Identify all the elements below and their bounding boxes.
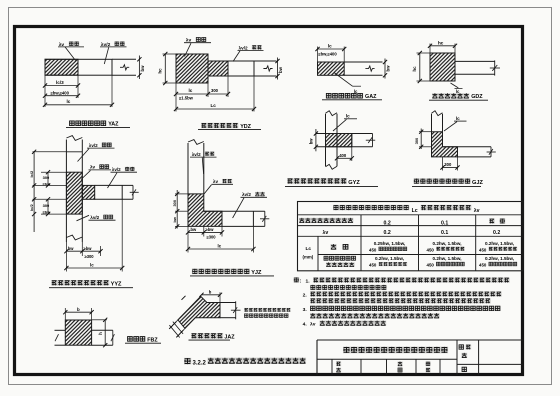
svg-text:h: h: [98, 332, 103, 335]
svg-text:λv: λv: [323, 230, 329, 236]
svg-text:0.2hw, 1.5bw,: 0.2hw, 1.5bw,: [432, 256, 461, 261]
svg-text:λv: λv: [90, 165, 96, 170]
svg-text:bw: bw: [191, 227, 198, 232]
svg-text:300: 300: [43, 175, 50, 180]
svg-text:λv: λv: [213, 179, 219, 184]
svg-text:GDZ: GDZ: [471, 94, 483, 100]
svg-text:≥bw,≥400: ≥bw,≥400: [318, 52, 337, 57]
svg-text:0.25hw, 1.5bw,: 0.25hw, 1.5bw,: [374, 241, 406, 246]
svg-text:lc: lc: [456, 116, 460, 121]
svg-text:Lc: Lc: [211, 103, 217, 108]
svg-text:JAZ: JAZ: [224, 335, 235, 341]
svg-text:≥bw: ≥bw: [43, 210, 52, 215]
svg-text:1.: 1.: [306, 279, 311, 285]
svg-text:bw: bw: [68, 246, 75, 251]
svg-text:lc: lc: [67, 99, 71, 104]
svg-text:450: 450: [479, 247, 487, 252]
svg-text:λv: λv: [310, 321, 316, 327]
svg-text:YDZ: YDZ: [240, 124, 251, 130]
svg-text:≥300: ≥300: [207, 235, 217, 240]
svg-text:450: 450: [369, 263, 377, 268]
svg-text:≥bw,≥400: ≥bw,≥400: [51, 90, 70, 95]
svg-text:0.1: 0.1: [441, 230, 448, 236]
svg-text:≥1.5bw: ≥1.5bw: [179, 96, 194, 101]
svg-text:GYZ: GYZ: [348, 180, 360, 186]
svg-text:0.2hw, 1.5bw,: 0.2hw, 1.5bw,: [485, 256, 514, 261]
svg-text:b: b: [77, 307, 80, 312]
svg-text:bw: bw: [140, 65, 145, 72]
svg-text:0.2hw, 1.5bw,: 0.2hw, 1.5bw,: [432, 241, 461, 246]
svg-text:3.2.2: 3.2.2: [193, 360, 207, 366]
svg-text:λv/2: λv/2: [242, 192, 251, 197]
svg-text:YAZ: YAZ: [108, 122, 119, 128]
svg-text:lc/2: lc/2: [29, 170, 34, 177]
svg-text:bw: bw: [385, 65, 390, 72]
svg-text:450: 450: [479, 263, 487, 268]
svg-text:hc: hc: [438, 40, 444, 45]
svg-text:0.2hw, 1.5bw,: 0.2hw, 1.5bw,: [485, 241, 514, 246]
svg-text:lc: lc: [346, 114, 350, 119]
svg-text:bw: bw: [309, 138, 314, 145]
svg-text:FBZ: FBZ: [147, 337, 158, 343]
svg-text:lc/3: lc/3: [56, 80, 64, 85]
svg-text:0.2hw, 1.5bw,: 0.2hw, 1.5bw,: [375, 256, 404, 261]
svg-text:(mm): (mm): [303, 255, 314, 260]
svg-text:450: 450: [427, 247, 435, 252]
svg-text:0.2: 0.2: [384, 220, 391, 226]
svg-text:hc: hc: [158, 68, 163, 74]
svg-text:λv: λv: [474, 208, 480, 214]
svg-text:300: 300: [414, 138, 419, 145]
svg-text:450: 450: [369, 247, 377, 252]
svg-text:hc: hc: [412, 66, 417, 72]
svg-text:300: 300: [444, 162, 452, 167]
svg-text:lc: lc: [328, 44, 332, 49]
svg-text:λv/2: λv/2: [90, 215, 99, 220]
svg-text:≥bw: ≥bw: [84, 246, 93, 251]
svg-text:lc: lc: [189, 88, 193, 93]
svg-text:YYZ: YYZ: [111, 282, 122, 288]
svg-text:450: 450: [427, 263, 435, 268]
svg-text:0.2: 0.2: [493, 230, 500, 236]
svg-text:λv/2: λv/2: [89, 143, 98, 148]
svg-text:YJZ: YJZ: [251, 270, 262, 276]
svg-text:GJZ: GJZ: [472, 180, 483, 186]
svg-text:lc/2: lc/2: [29, 204, 34, 211]
svg-text:λv/2: λv/2: [112, 167, 121, 172]
svg-text:300: 300: [211, 88, 219, 93]
svg-text:lc: lc: [218, 244, 222, 249]
svg-text:bw: bw: [278, 66, 283, 73]
svg-text:400: 400: [339, 153, 347, 158]
svg-text:GAZ: GAZ: [365, 94, 377, 100]
svg-text:2.: 2.: [303, 292, 308, 298]
svg-text:≥bw: ≥bw: [206, 227, 215, 232]
svg-text:Lc: Lc: [412, 208, 418, 214]
svg-text:lc: lc: [90, 263, 94, 268]
svg-text:≥300: ≥300: [85, 254, 95, 259]
svg-text:300: 300: [43, 203, 50, 208]
svg-text:λv/2: λv/2: [239, 46, 249, 51]
svg-text:0.1: 0.1: [441, 220, 448, 226]
svg-text:0.2: 0.2: [384, 230, 391, 236]
svg-text:b: b: [209, 289, 212, 294]
svg-text:λv/2: λv/2: [192, 152, 201, 157]
svg-text:300: 300: [172, 200, 177, 207]
svg-text:Lc: Lc: [306, 246, 312, 252]
svg-text:4.: 4.: [303, 321, 308, 327]
svg-text:≥bw: ≥bw: [43, 182, 52, 187]
svg-text:3.: 3.: [303, 307, 308, 313]
